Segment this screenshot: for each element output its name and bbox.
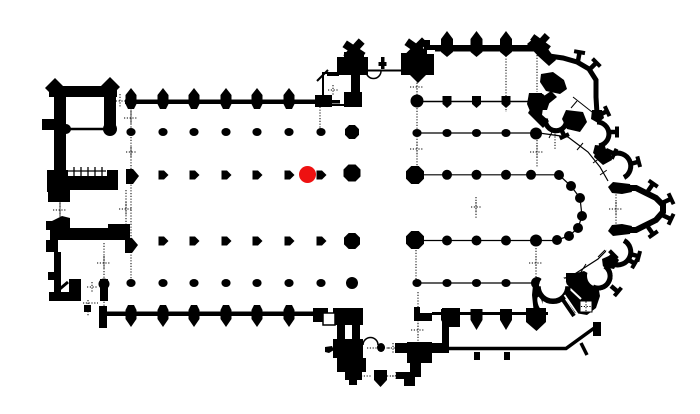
west block: west wall mid: [54, 174, 66, 192]
choir south outer wall: [449, 326, 597, 349]
axial chapel buttress E2: [662, 215, 671, 219]
dotted cross (537,152): [530, 145, 544, 159]
dotted vertical x320 (transept axis): [319, 104, 321, 133]
apse blob A-B: [562, 110, 587, 132]
dotted vertical x417 north: [416, 77, 418, 97]
crossing pier octagon (352,241): [344, 233, 360, 249]
chapel ring buttress SE (B-prime): [611, 286, 618, 292]
axial chapel buttress S: [648, 227, 653, 234]
dotted vertical x417 mid: [416, 108, 418, 168]
west block: stair diagonal: [55, 282, 68, 293]
south transept inner wall: [352, 325, 360, 345]
chevet wall buttress NE1: [578, 52, 580, 61]
chapel A-prime disc redraw: [539, 273, 567, 301]
north wall buttress pier 5: [252, 88, 263, 109]
dotted vertical x506 (choir chapel axis): [505, 53, 507, 112]
chevet outer wall NE polyline: [549, 56, 597, 114]
chapel B buttress apex: [608, 130, 617, 135]
west block: band A solid wall: [60, 176, 118, 190]
apse diagonal band down: [528, 106, 549, 128]
south transept south pier: [374, 370, 387, 387]
south wall buttress pier 5: [252, 305, 263, 327]
dotted vertical x537 lower: [535, 248, 537, 278]
west block: west buttress (mid): [46, 221, 54, 230]
choir row y133 columns: [412, 129, 421, 137]
dotted vertical x417 below crossing: [415, 250, 417, 285]
west block: south wall stub: [99, 306, 107, 328]
apse blob B-C: [594, 146, 612, 165]
apse pier bar south (with stair slit): [532, 285, 543, 314]
choir north pinnacled buttress 2: [471, 31, 483, 57]
chapel C (north-north-east): [606, 154, 630, 178]
choir north pinnacled buttress 3: [500, 31, 512, 57]
apse blob C'-B': [602, 254, 619, 269]
west block: south band: [49, 292, 80, 301]
south transept south bar: [345, 372, 362, 380]
choir row y175 columns: [442, 170, 452, 180]
choir north pinnacled buttress 1: [441, 31, 453, 57]
choir line y133: [417, 132, 540, 134]
nave arcade row2 (y175) columns: [159, 171, 169, 180]
west block: west buttress (lower): [48, 272, 56, 280]
north transept small trumeau pier: [379, 62, 387, 66]
chapel ring wall bar below B-prime: [593, 322, 601, 336]
chapel C buttress E: [630, 162, 639, 164]
choir south outer buttress 1: [474, 352, 480, 360]
north transept west pinnacle base: [344, 52, 364, 62]
nave arcade row3 (y241) columns: [159, 237, 169, 246]
choir line y101: [423, 101, 533, 103]
north transept west porch (square chapel): [323, 73, 355, 105]
south transept wall notch (white door): [323, 313, 335, 325]
northwest tower: NE corner diagonal buttress: [101, 77, 120, 96]
dotted vertical x555 (ambulatory): [554, 128, 556, 150]
south wall buttress pier 1: [126, 305, 137, 327]
chapel B' (south-east): [587, 265, 609, 287]
north transept door arc: [366, 71, 381, 79]
hemicycle column 7: [552, 235, 562, 245]
north transept portal lintel line: [368, 70, 402, 72]
dotted vertical x537 choir: [536, 55, 538, 92]
south ambulatory knot: [566, 273, 581, 290]
choir south wall pier 1: [441, 309, 453, 330]
choir line y240: [415, 240, 557, 242]
crossing SW wall pier: [344, 308, 361, 324]
choir wall pier y101 #3: [502, 96, 511, 108]
dotted cross (92,287): [87, 282, 97, 292]
dotted cross (126,209): [119, 202, 133, 216]
northwest tower: west wall: [54, 86, 66, 174]
ambulatory south line slash 2: [598, 250, 605, 257]
choir north outer wall: [424, 45, 534, 52]
chevet wall buttress NE2: [590, 63, 596, 69]
dotted cross (131,152): [126, 147, 136, 157]
west block: band B east block: [108, 224, 130, 240]
north transept small square: [424, 40, 430, 46]
axial chapel buttress E1: [662, 199, 671, 203]
choir south outer tick: [581, 343, 587, 355]
northwest tower: south wall line: [64, 128, 108, 131]
hemicycle column 4: [577, 211, 587, 221]
west block: stair band top rail: [66, 170, 106, 172]
west block: band A west block: [47, 170, 68, 192]
dotted cross (393,348): [388, 343, 398, 353]
axial chapel walls: [620, 188, 663, 230]
ambulatory north line slash 2: [577, 143, 583, 150]
chapel A' (south, beside outer wall): [539, 273, 567, 301]
hemicycle column 6: [564, 231, 574, 241]
apse blob D-C' entrance: [608, 224, 632, 236]
west block: lower block: [69, 279, 81, 301]
dotted vertical x537 upper: [536, 140, 538, 168]
west block: south pier with shaft: [100, 279, 108, 301]
south sacristy mass east: [564, 271, 600, 315]
south wall buttress pier 4: [221, 305, 232, 327]
nave arcade row4 (y283) columns: [126, 279, 135, 287]
choir south big pier: [526, 308, 546, 331]
northwest tower: SW round column: [61, 124, 71, 134]
west block: band A east pier: [107, 170, 118, 186]
north wall buttress pier 4: [221, 88, 232, 109]
south transept east mass: [407, 342, 432, 363]
south transept door arc: [363, 338, 378, 345]
choir big dot (537,283): [531, 277, 543, 289]
choir south wall pier 2: [471, 309, 483, 330]
choir wall pier y101 #2: [472, 96, 481, 108]
dotted cross (396,376): [392, 372, 400, 380]
south wall end pier: [313, 308, 328, 322]
west block: band B wall: [50, 228, 130, 240]
north wall buttress pier 1: [126, 88, 137, 109]
hemicycle column 1: [554, 170, 564, 180]
hemicycle column 3: [575, 193, 585, 203]
north wall buttress pier 6: [284, 88, 295, 109]
choir row y283 columns: [412, 279, 421, 287]
apse corner blob NE (joins wall corner): [540, 72, 567, 94]
northwest tower: NW corner diagonal buttress: [45, 78, 64, 97]
chapel A (north, beside choir wall): [547, 111, 566, 130]
choir south wall pier 3: [500, 309, 512, 330]
chapel C' buttress E: [630, 254, 639, 256]
chapel C' buttress SE: [627, 259, 635, 264]
south transept dotted tie lower: [361, 375, 372, 377]
apse diagonal band up: [534, 91, 557, 110]
northwest tower: north wall: [49, 86, 117, 97]
nave north aisle wall: [125, 100, 331, 105]
crossing east big pier (415,175): [406, 166, 424, 184]
choir big dot (536,240): [530, 235, 542, 247]
dotted chord axial chapel: [615, 186, 617, 232]
west block: band B west block: [50, 216, 70, 240]
north wall buttress pier 3: [189, 88, 200, 109]
south transept east T block: [414, 307, 420, 321]
red location marker: [299, 166, 316, 183]
south transept small oval: [377, 343, 385, 352]
north wall corner pier at transept: [315, 95, 332, 107]
chapel A buttress: [561, 129, 564, 136]
choir wall pier y101 #1: [443, 96, 452, 108]
choir line y283: [417, 282, 533, 284]
dotted cross (616,209): [609, 202, 623, 216]
south wall buttress pier 6: [284, 305, 295, 327]
north transept east portal block: [401, 53, 434, 75]
south transept dotted tie upper: [367, 347, 390, 349]
south sacristy white square: [580, 301, 592, 312]
choir south connecting bar: [442, 316, 449, 346]
south transept west corner block: [333, 308, 363, 325]
choir south outer buttress 2: [504, 352, 510, 360]
chapel C buttress NW: [606, 150, 614, 154]
chapel B (north-east): [586, 123, 608, 145]
dotted cross (417,87): [410, 80, 424, 94]
west block: SW block: [46, 240, 58, 252]
crossing NE round pier (417,101): [411, 95, 424, 108]
north wall buttress pier 2: [158, 88, 169, 109]
dotted cross (417,149): [410, 142, 424, 156]
south transept chapel mass: [333, 339, 363, 358]
south transept west wall: [337, 325, 345, 372]
ambulatory south thin line: [544, 243, 614, 282]
south wall buttress pier 2: [158, 305, 169, 327]
choir south block east: [442, 308, 460, 327]
dotted vertical x60: [59, 196, 61, 222]
nave south aisle wall: [100, 312, 323, 317]
chapel B-C knot: [593, 145, 607, 159]
crossing NW wall pier: [344, 92, 362, 107]
apse blob C-D entrance: [608, 182, 632, 194]
hemicycle column 5: [573, 223, 583, 233]
choir south inner wall line: [432, 312, 548, 315]
dotted steps SW: [87, 300, 89, 316]
northwest tower: east wall: [104, 92, 116, 128]
chapel C' (south-south-east): [606, 240, 630, 264]
ambulatory south line slash 1: [581, 264, 586, 272]
south transept bottom stub: [349, 380, 357, 385]
south wall buttress pier 3: [189, 305, 200, 327]
ambulatory north thin line: [539, 133, 608, 181]
north transept east portal bottom point: [410, 75, 426, 83]
chevet wall buttress NE3: [599, 111, 607, 115]
west block: west buttress (upper): [42, 119, 55, 130]
chevet wall knot B-top: [591, 110, 604, 123]
dotted vertical x476 nave axis: [475, 197, 477, 218]
dotted cross (418,330): [411, 323, 425, 337]
choir south outer wall band: [395, 343, 449, 353]
north transept east wall upper: [351, 73, 360, 95]
choir row y240 columns: [442, 236, 452, 246]
crossing pier octagon (352,174): [344, 165, 361, 182]
dotted cross (131,118): [124, 111, 138, 125]
dotted cross (476,207): [471, 202, 481, 212]
south transept east wall bar: [410, 363, 421, 377]
south transept west spur: [325, 346, 334, 353]
south sacristy stair hatch: [561, 297, 574, 316]
dotted vertical x131 lower: [130, 137, 132, 280]
north transept porch diagonal: [317, 70, 328, 81]
south transept lower mass: [345, 358, 366, 372]
chapel B' buttress: [607, 255, 613, 261]
west block: stair treads: [73, 167, 75, 176]
dotted cross (60,210): [53, 203, 67, 217]
choir NE corner blob: [528, 94, 550, 110]
north transept west wall top: [327, 74, 339, 76]
west block: south pier round head: [99, 279, 110, 290]
west block: arrow pier row3 west: [125, 238, 138, 253]
north transept west pinnacle cross: [348, 44, 360, 55]
hemicycle arc line: [557, 175, 582, 240]
west block: small step block: [84, 305, 91, 312]
dotted cross (104,263): [97, 256, 111, 270]
choir big dot (537,133): [530, 128, 542, 140]
dotted cross (120,101): [113, 94, 127, 108]
choir line y175: [415, 174, 559, 176]
apse pier bar north (end of y101 wall): [527, 93, 544, 116]
west block: west wall lower: [54, 252, 61, 293]
south sacristy mass slash: [566, 285, 581, 299]
crossing dot (352,283): [346, 277, 358, 289]
dotted vertical x126: [125, 190, 127, 225]
dotted cross (333,90): [328, 85, 338, 95]
axial chapel buttress N: [648, 184, 653, 191]
ambulatory north line slash 1: [549, 130, 553, 138]
crossing east big pier (415,240): [406, 231, 424, 249]
dotted vertical x104: [103, 243, 105, 312]
north transept west portal block: [337, 57, 368, 75]
ambulatory north line slash 4: [600, 170, 607, 175]
northwest tower: SE round column: [103, 122, 117, 136]
nave arcade row1 (y132) columns: [126, 128, 135, 136]
ambulatory north diagonal slash: [571, 101, 577, 108]
south transept east foot: [404, 372, 415, 386]
choir north wall corner diagonal: [527, 38, 556, 66]
crossing NW diamond pier (352,132): [345, 125, 359, 139]
NE apse pinnacle cross: [535, 38, 546, 48]
dotted axis bay1: [130, 104, 132, 136]
north transept east pinnacle cross: [410, 43, 423, 55]
hemicycle column 2: [566, 181, 576, 191]
ambulatory north diagonal thin line: [573, 97, 592, 112]
west block: arrow pier row2 west: [126, 169, 139, 184]
dotted vertical x417 south: [417, 292, 419, 342]
chapel B-prime disc redraw: [587, 265, 609, 287]
dotted cross (536,263): [529, 256, 543, 270]
ambulatory north line slash 3: [593, 158, 600, 163]
